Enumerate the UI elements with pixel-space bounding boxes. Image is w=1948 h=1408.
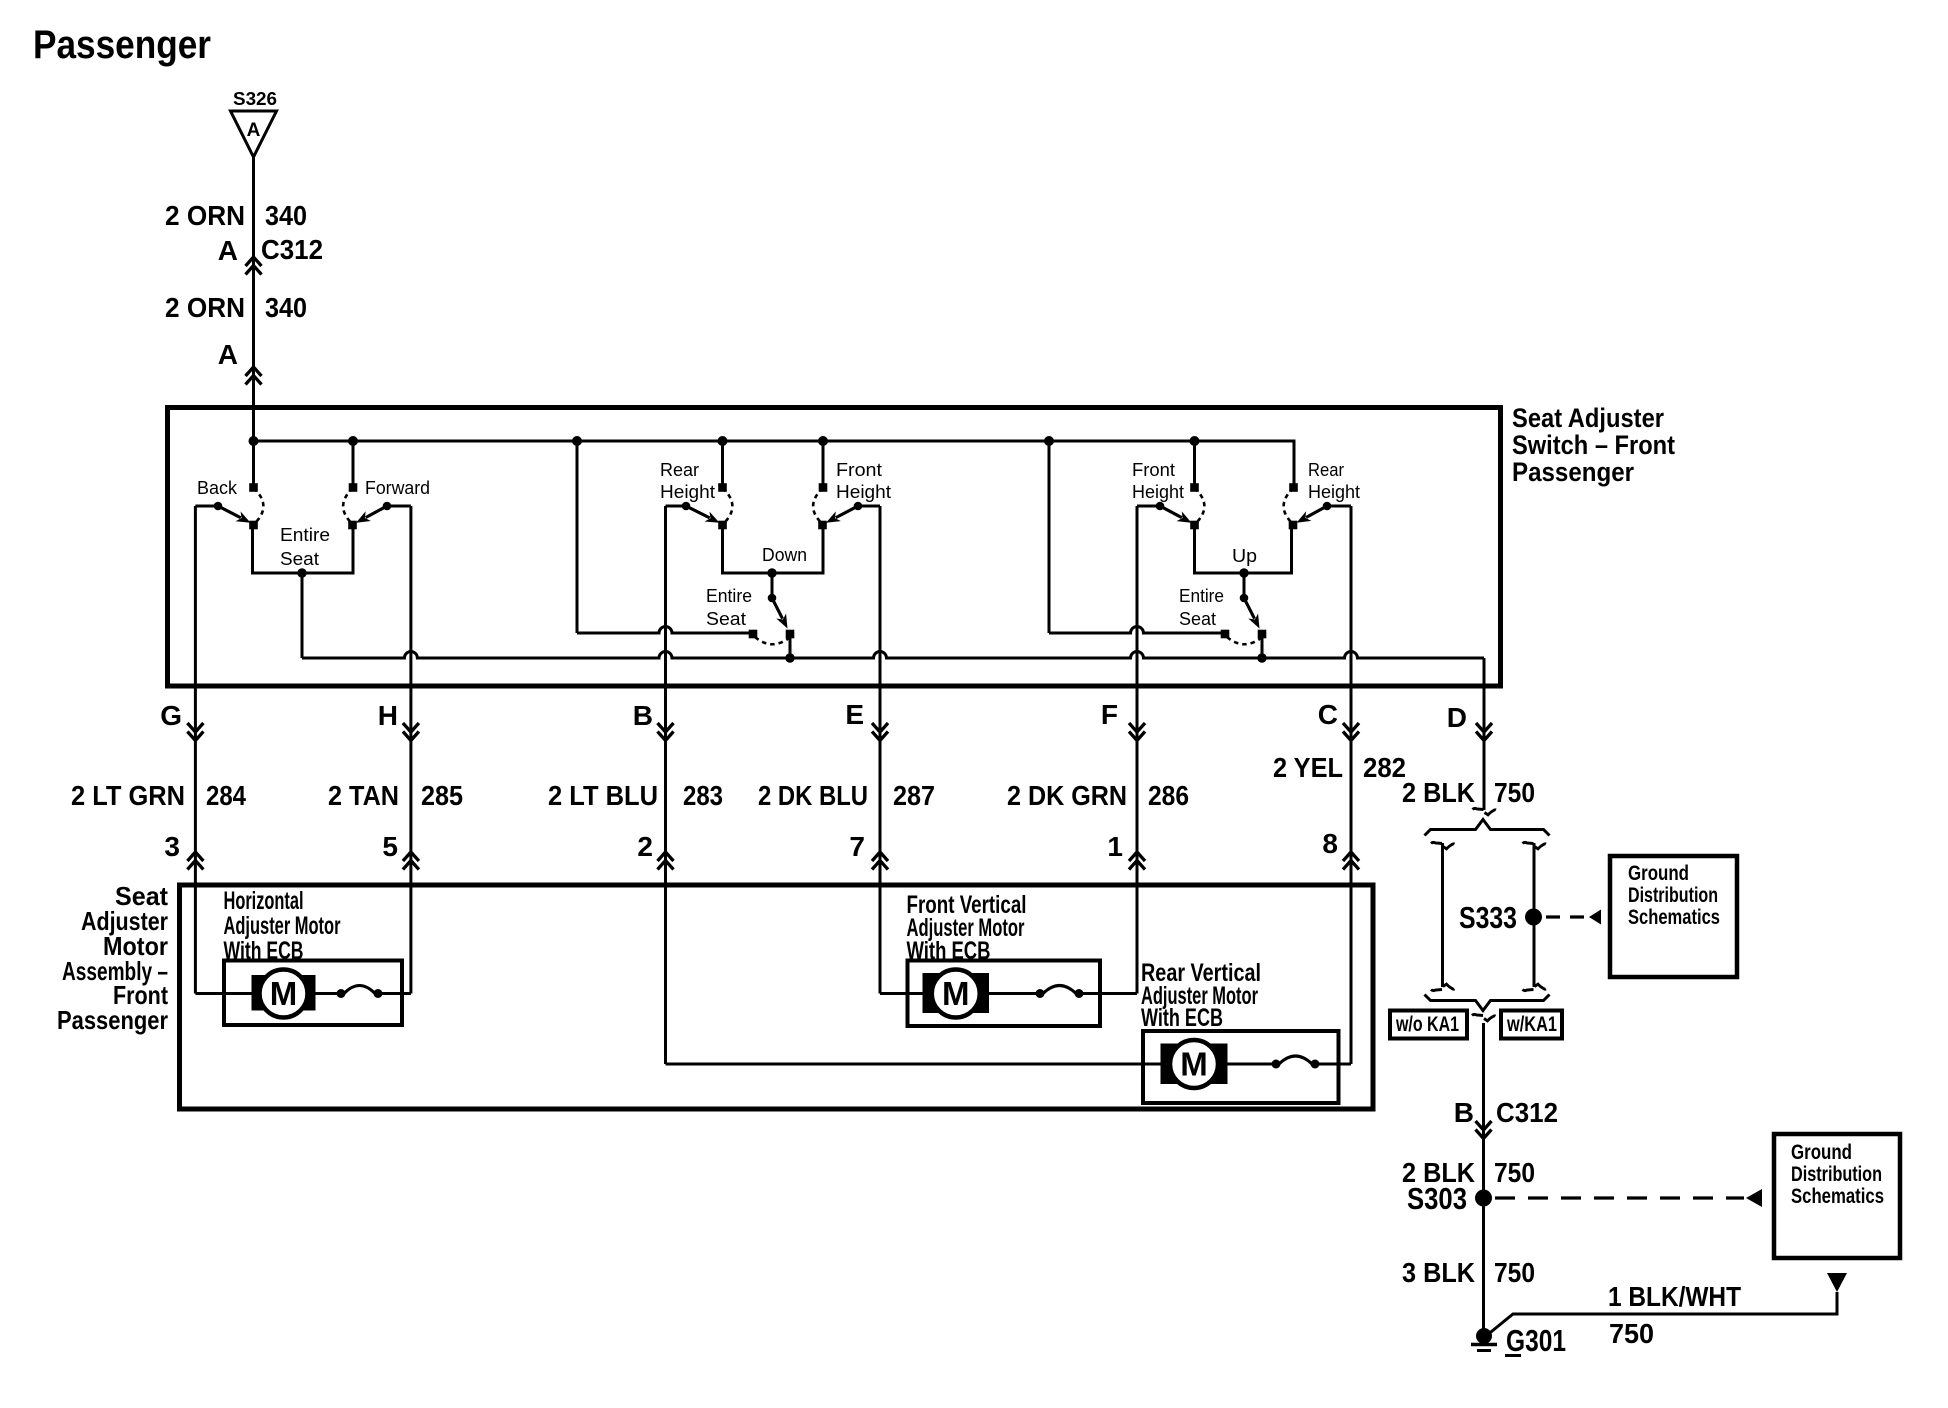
svg-text:Entire: Entire: [1179, 586, 1224, 606]
svg-text:1 BLK/WHT: 1 BLK/WHT: [1608, 1281, 1741, 1312]
svg-text:283: 283: [683, 780, 723, 811]
svg-text:Rear: Rear: [1308, 460, 1344, 480]
svg-text:w/o KA1: w/o KA1: [1395, 1013, 1459, 1036]
svg-text:Distribution: Distribution: [1628, 884, 1718, 907]
svg-text:Passenger: Passenger: [57, 1005, 168, 1035]
svg-text:2 TAN: 2 TAN: [328, 780, 399, 811]
svg-text:Ground: Ground: [1628, 862, 1689, 885]
svg-text:750: 750: [1494, 1257, 1535, 1288]
svg-text:F: F: [1101, 699, 1118, 730]
svg-text:C: C: [1318, 699, 1338, 730]
svg-text:Schematics: Schematics: [1791, 1185, 1884, 1208]
svg-text:Entire: Entire: [280, 525, 330, 545]
svg-text:A: A: [218, 339, 238, 370]
svg-text:Seat: Seat: [280, 549, 319, 569]
svg-text:Schematics: Schematics: [1628, 906, 1720, 929]
svg-text:8: 8: [1322, 828, 1338, 859]
svg-text:2 LT BLU: 2 LT BLU: [548, 780, 658, 811]
svg-text:D: D: [1447, 702, 1467, 733]
svg-text:A: A: [247, 120, 261, 141]
svg-text:w/KA1: w/KA1: [1506, 1013, 1557, 1036]
svg-text:C312: C312: [261, 234, 323, 265]
svg-text:Entire: Entire: [706, 586, 752, 606]
svg-text:750: 750: [1494, 1157, 1535, 1188]
svg-text:Height: Height: [1308, 482, 1360, 502]
svg-text:285: 285: [421, 780, 463, 811]
svg-text:S333: S333: [1459, 900, 1517, 935]
svg-text:7: 7: [849, 831, 865, 862]
svg-text:2 DK GRN: 2 DK GRN: [1007, 780, 1127, 811]
svg-text:Front: Front: [836, 460, 882, 480]
svg-text:2 YEL: 2 YEL: [1273, 752, 1343, 783]
svg-text:5: 5: [382, 831, 398, 862]
svg-text:340: 340: [265, 292, 307, 323]
svg-text:284: 284: [206, 780, 246, 811]
svg-text:Up: Up: [1232, 546, 1257, 566]
svg-text:B: B: [633, 700, 653, 731]
svg-text:M: M: [270, 975, 298, 1012]
svg-text:Height: Height: [660, 482, 715, 502]
svg-text:340: 340: [265, 200, 307, 231]
svg-text:Adjuster Motor: Adjuster Motor: [224, 912, 341, 940]
svg-text:2 ORN: 2 ORN: [165, 200, 245, 231]
svg-text:3: 3: [164, 831, 180, 862]
svg-text:Rear: Rear: [660, 460, 699, 480]
svg-text:G: G: [160, 700, 182, 731]
svg-text:282: 282: [1363, 752, 1406, 783]
svg-text:M: M: [942, 975, 970, 1012]
svg-text:With ECB: With ECB: [224, 937, 304, 965]
svg-text:2 DK BLU: 2 DK BLU: [758, 780, 868, 811]
svg-text:Height: Height: [836, 482, 891, 502]
svg-text:Back: Back: [197, 478, 238, 498]
svg-text:C312: C312: [1496, 1097, 1558, 1128]
svg-text:S326: S326: [233, 89, 277, 109]
svg-text:A: A: [218, 235, 238, 266]
svg-text:Front: Front: [1132, 460, 1175, 480]
svg-text:H: H: [378, 700, 398, 731]
svg-text:Distribution: Distribution: [1791, 1163, 1882, 1186]
svg-text:2: 2: [637, 831, 653, 862]
svg-text:Passenger: Passenger: [1512, 457, 1634, 487]
svg-text:Horizontal: Horizontal: [224, 887, 304, 915]
svg-text:Seat: Seat: [1179, 609, 1216, 629]
svg-text:Passenger: Passenger: [33, 23, 211, 67]
svg-text:B: B: [1454, 1097, 1474, 1128]
svg-text:Seat: Seat: [706, 609, 746, 629]
svg-text:S303: S303: [1407, 1181, 1467, 1216]
svg-text:286: 286: [1148, 780, 1189, 811]
svg-text:Switch – Front: Switch – Front: [1512, 430, 1675, 460]
svg-text:Forward: Forward: [365, 478, 430, 498]
svg-text:G301: G301: [1506, 1323, 1566, 1358]
svg-text:Height: Height: [1132, 482, 1184, 502]
svg-text:750: 750: [1609, 1318, 1654, 1349]
svg-text:2 LT GRN: 2 LT GRN: [71, 780, 185, 811]
svg-text:Seat Adjuster: Seat Adjuster: [1512, 403, 1664, 433]
svg-text:3 BLK: 3 BLK: [1402, 1257, 1475, 1288]
svg-text:With ECB: With ECB: [1141, 1004, 1223, 1032]
svg-text:750: 750: [1494, 777, 1535, 808]
svg-text:M: M: [1180, 1046, 1208, 1083]
svg-text:Down: Down: [762, 545, 807, 565]
svg-text:E: E: [845, 699, 864, 730]
svg-text:1: 1: [1107, 831, 1123, 862]
svg-text:With ECB: With ECB: [907, 937, 991, 965]
svg-text:2 ORN: 2 ORN: [165, 292, 245, 323]
svg-text:Ground: Ground: [1791, 1141, 1852, 1164]
svg-text:2 BLK: 2 BLK: [1402, 777, 1475, 808]
svg-text:287: 287: [893, 780, 935, 811]
